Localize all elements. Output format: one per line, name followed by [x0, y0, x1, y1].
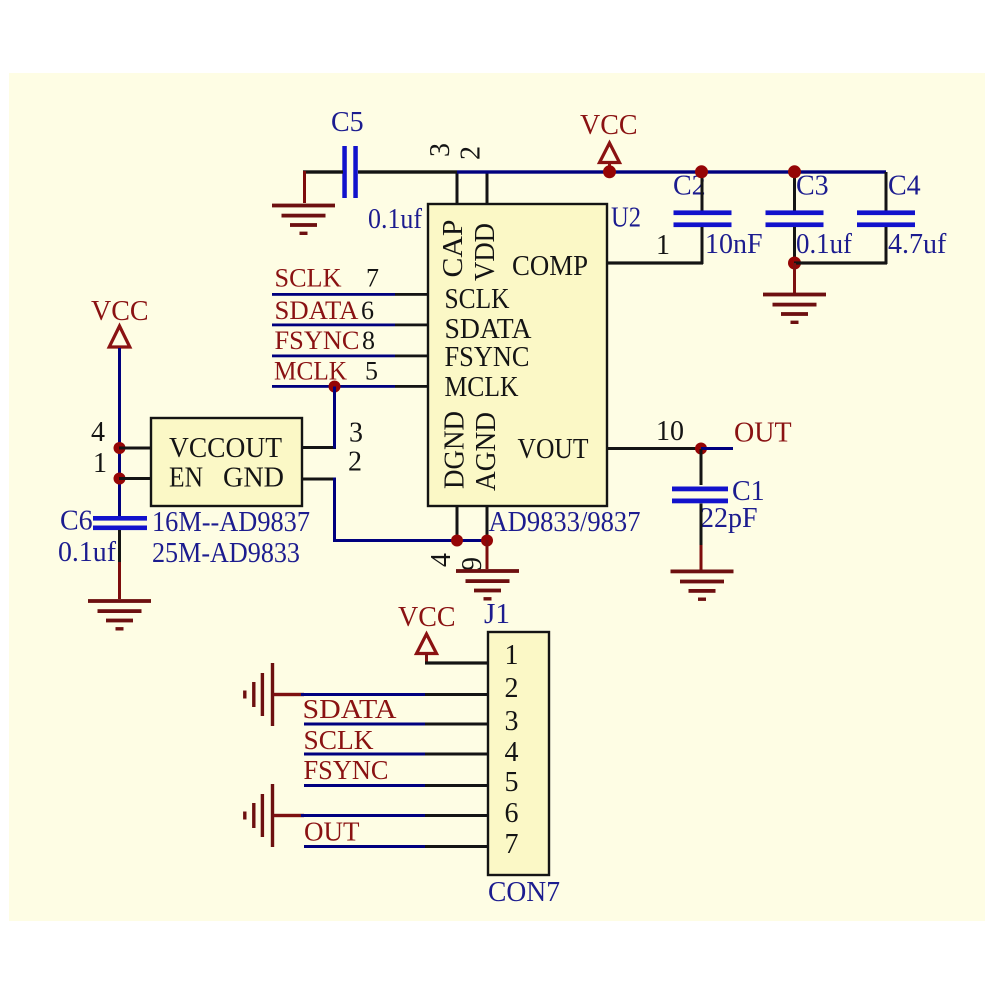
- capacitor C2 plates: [674, 210, 732, 227]
- svg-text:FSYNC: FSYNC: [445, 342, 530, 373]
- net label FSYNC bottom: [304, 755, 389, 785]
- capacitor C5 label: [331, 107, 364, 138]
- svg-text:8: 8: [362, 326, 375, 355]
- capacitor C3 label: [796, 171, 829, 202]
- capacitor C6 label: [60, 506, 93, 537]
- capacitor C1 top stub: [700, 449, 703, 485]
- svg-text:AD9833/9837: AD9833/9837: [489, 507, 641, 538]
- wire J1 pin7: [304, 845, 488, 848]
- svg-text:DGND: DGND: [440, 411, 471, 489]
- wire DGND stub: [456, 506, 459, 541]
- svg-text:OUT: OUT: [734, 418, 792, 449]
- wire pin1 stub: [119, 477, 152, 480]
- wire VCCOUT pin3 to MCLK: [333, 387, 336, 449]
- svg-text:VCC: VCC: [91, 296, 149, 327]
- svg-text:4: 4: [426, 553, 457, 567]
- junction dot AGND: [481, 535, 493, 547]
- svg-text:MCLK: MCLK: [445, 372, 519, 403]
- IC U2 pin name VDD rotated: [470, 223, 501, 281]
- wire C5 ground stub: [303, 171, 306, 203]
- IC VCCOUT GND pin text: [223, 463, 284, 494]
- svg-text:C6: C6: [60, 506, 93, 537]
- connector J1 body CON7: [488, 632, 549, 875]
- svg-text:5: 5: [365, 357, 378, 386]
- IC U2 pin name COMP: [512, 251, 588, 282]
- sideways ground at J1 pin2: [243, 663, 304, 726]
- IC U2 pin name FSYNC: [445, 342, 530, 373]
- net label OUT right: [734, 418, 792, 449]
- ground below C1: [671, 570, 734, 601]
- power VCC J1 triangle: [417, 634, 437, 654]
- wire J1 pin5: [304, 784, 488, 787]
- wire VCCOUT pin3 stub: [302, 446, 336, 449]
- wire top VCC rail: [457, 170, 886, 173]
- svg-text:1: 1: [93, 448, 107, 479]
- capacitor C6 value 0.1uf: [58, 537, 117, 568]
- IC U2 pin name AGND rotated: [471, 412, 502, 491]
- net label SCLK bottom: [304, 725, 374, 755]
- note 25M-AD9833: [152, 538, 300, 569]
- svg-text:SCLK: SCLK: [445, 284, 510, 315]
- capacitor C4 plates: [857, 210, 915, 227]
- IC U2 pin name SDATA: [445, 314, 533, 345]
- wire C1 bottom black: [700, 504, 703, 546]
- capacitor C2 label: [673, 171, 706, 202]
- wire C1 ground stub: [700, 545, 703, 570]
- svg-text:6: 6: [361, 296, 374, 325]
- svg-text:1: 1: [505, 640, 519, 671]
- wire VCC left vertical: [118, 348, 121, 516]
- junction dot pin1: [114, 473, 126, 485]
- wire J1 pin2: [301, 693, 488, 696]
- svg-text:3: 3: [425, 143, 456, 157]
- wire OUT tail: [701, 447, 733, 450]
- capacitor C3 value 0.1uf: [796, 229, 853, 260]
- junction dot C3 top: [788, 165, 801, 178]
- capacitor C1 plates: [672, 487, 728, 504]
- svg-text:GND: GND: [223, 463, 284, 494]
- net label SDATA: [275, 296, 359, 325]
- pin number 1 (COMP): [656, 230, 670, 261]
- svg-text:2: 2: [348, 447, 362, 478]
- capacitor C3 top stub: [793, 172, 796, 212]
- power VCC top label: [580, 110, 638, 141]
- svg-text:16M--AD9837: 16M--AD9837: [152, 507, 310, 538]
- pin number 6: [361, 296, 374, 325]
- pin number 4 (VCCOUT left): [91, 417, 105, 448]
- pin number 2 (VDD) rotated: [456, 146, 487, 160]
- connector J1 label CON7: [488, 877, 560, 908]
- connector J1 reference label: [484, 599, 510, 630]
- connector J1 pin number 7: [505, 829, 519, 860]
- pin number 8: [362, 326, 375, 355]
- wire pin3 stub into CAP: [456, 171, 459, 205]
- IC U2 pin name SCLK: [445, 284, 510, 315]
- svg-text:3: 3: [349, 418, 363, 449]
- svg-text:VCC: VCC: [580, 110, 638, 141]
- svg-text:4: 4: [505, 737, 519, 768]
- svg-text:U2: U2: [611, 203, 641, 234]
- connector J1 pin number 3: [505, 706, 519, 737]
- capacitor C2 bottom stub: [701, 227, 704, 264]
- net label MCLK: [274, 357, 347, 386]
- svg-text:SDATA: SDATA: [303, 694, 398, 724]
- wire VCC to J1 pin1: [425, 654, 488, 665]
- power VCC left triangle: [109, 326, 130, 347]
- svg-text:6: 6: [505, 798, 519, 829]
- svg-text:7: 7: [505, 829, 519, 860]
- capacitor C3 bottom stub: [793, 227, 796, 264]
- junction dot pin4: [114, 442, 126, 454]
- wire VCCOUT pin2 down: [333, 478, 336, 542]
- svg-text:7: 7: [366, 264, 379, 293]
- svg-text:0.1uf: 0.1uf: [368, 204, 423, 235]
- pin number 7: [366, 264, 379, 293]
- connector J1 pin number 5: [505, 767, 519, 798]
- wire C3 to C4 bottom: [794, 261, 887, 264]
- wire C3 ground stub: [793, 263, 796, 293]
- svg-text:2: 2: [505, 673, 519, 704]
- wire J1 pin3: [304, 723, 488, 726]
- svg-text:COMP: COMP: [512, 251, 588, 282]
- wire VCCOUT pin2 stub: [302, 478, 336, 481]
- pin number 9 (AGND) rotated: [457, 557, 488, 571]
- capacitor C1 value 22pF: [700, 503, 758, 534]
- net label OUT bottom: [304, 817, 360, 847]
- pin number 5: [365, 357, 378, 386]
- IC U2 body AD9833/9837: [428, 204, 607, 506]
- svg-text:9: 9: [457, 557, 488, 571]
- svg-text:5: 5: [505, 767, 519, 798]
- IC U2 pin name VOUT: [518, 434, 589, 465]
- svg-text:VDD: VDD: [470, 223, 501, 281]
- svg-text:C4: C4: [888, 171, 921, 202]
- IC type label AD9833/9837: [489, 507, 641, 538]
- svg-text:CAP: CAP: [438, 220, 469, 278]
- svg-text:0.1uf: 0.1uf: [796, 229, 853, 260]
- junction dot DGND: [451, 535, 463, 547]
- svg-text:J1: J1: [484, 599, 510, 630]
- wire VOUT pin10: [607, 447, 703, 450]
- IC VCCOUT oscillator body: [151, 418, 302, 506]
- svg-text:VOUT: VOUT: [518, 434, 589, 465]
- svg-text:10nF: 10nF: [705, 229, 763, 260]
- svg-text:EN: EN: [169, 463, 203, 494]
- wire C5 right to pin3: [358, 170, 457, 173]
- wire SDATA: [272, 324, 428, 327]
- net label SDATA bottom: [303, 694, 398, 724]
- pin number 3 (CAP) rotated: [425, 143, 456, 157]
- connector J1 pin number 6: [505, 798, 519, 829]
- capacitor C3 plates: [766, 210, 824, 227]
- svg-text:AGND: AGND: [471, 412, 502, 491]
- ground below C3: [763, 293, 826, 324]
- svg-text:1: 1: [656, 230, 670, 261]
- svg-text:SCLK: SCLK: [304, 725, 374, 755]
- capacitor C4 label: [888, 171, 921, 202]
- wire AGND ground stub: [486, 540, 489, 569]
- svg-text:VCC: VCC: [398, 602, 456, 633]
- IC VCCOUT name text: [169, 433, 282, 464]
- junction dot VOUT: [695, 443, 707, 455]
- net label SCLK: [275, 264, 342, 293]
- svg-text:0.1uf: 0.1uf: [58, 537, 117, 568]
- svg-text:C5: C5: [331, 107, 364, 138]
- svg-text:2: 2: [456, 146, 487, 160]
- ground below C5: [272, 204, 335, 235]
- svg-text:FSYNC: FSYNC: [275, 326, 360, 355]
- svg-text:10: 10: [656, 416, 684, 447]
- pin number 3 (VCCOUT out): [349, 418, 363, 449]
- junction dot C2 top: [695, 165, 708, 178]
- wire FSYNC: [272, 355, 428, 358]
- wire pin4 stub: [119, 447, 152, 450]
- capacitor C2 value 10nF: [705, 229, 763, 260]
- svg-text:22pF: 22pF: [700, 503, 758, 534]
- IC U2 pin name MCLK: [445, 372, 519, 403]
- capacitor C6 plates: [93, 516, 147, 530]
- junction dot MCLK: [329, 381, 341, 393]
- wire C6 bottom black: [118, 530, 121, 562]
- capacitor C4 value 4.7uf: [888, 229, 947, 260]
- capacitor C5 plates: [342, 146, 358, 198]
- power VCC J1 label: [398, 602, 456, 633]
- svg-text:25M-AD9833: 25M-AD9833: [152, 538, 300, 569]
- wire J1 pin6: [301, 814, 488, 817]
- ground below C6: [88, 599, 151, 630]
- connector J1 pin number 2: [505, 673, 519, 704]
- wire pin2 stub into VDD: [486, 171, 489, 205]
- svg-text:OUT: OUT: [304, 817, 360, 847]
- svg-text:3: 3: [505, 706, 519, 737]
- svg-text:FSYNC: FSYNC: [304, 755, 389, 785]
- junction dot VCC rail: [603, 165, 616, 178]
- net label FSYNC: [275, 326, 360, 355]
- svg-text:C3: C3: [796, 171, 829, 202]
- pin number 2 (VCCOUT gnd): [348, 447, 362, 478]
- svg-text:4.7uf: 4.7uf: [888, 229, 947, 260]
- wire C6 ground stub: [118, 562, 121, 599]
- note 16M--AD9837: [152, 507, 310, 538]
- svg-text:4: 4: [91, 417, 105, 448]
- pin number 4 (DGND) rotated: [426, 553, 457, 567]
- pin number 10 (VOUT): [656, 416, 684, 447]
- capacitor C2 top stub: [701, 172, 704, 212]
- capacitor C4 bottom stub: [885, 227, 888, 264]
- power VCC top triangle: [600, 143, 620, 169]
- wire MCLK: [272, 385, 428, 388]
- wire J1 pin4: [304, 753, 488, 756]
- wire C5 left: [303, 170, 343, 173]
- capacitor C5 value 0.1uf: [368, 204, 423, 235]
- power VCC left label: [91, 296, 149, 327]
- sideways ground at J1 pin6: [243, 784, 304, 847]
- IC VCCOUT EN pin text: [169, 463, 203, 494]
- IC U2 pin name DGND rotated: [440, 411, 471, 489]
- junction dot C3 bottom: [788, 257, 801, 270]
- connector J1 pin number 1: [505, 640, 519, 671]
- wire COMP pin1 to C2: [607, 261, 703, 264]
- capacitor C4 top stub: [885, 172, 888, 212]
- svg-text:CON7: CON7: [488, 877, 560, 908]
- pin number 1 (EN): [93, 448, 107, 479]
- svg-text:VCCOUT: VCCOUT: [169, 433, 282, 464]
- connector J1 pin number 4: [505, 737, 519, 768]
- wire SCLK: [272, 293, 428, 296]
- svg-text:SDATA: SDATA: [275, 296, 359, 325]
- IC U2 pin name CAP rotated: [438, 220, 469, 278]
- IC U2 reference label: [611, 203, 641, 234]
- svg-text:SDATA: SDATA: [445, 314, 533, 345]
- ground below AGND: [456, 569, 519, 600]
- capacitor C1 label: [732, 476, 765, 507]
- svg-text:SCLK: SCLK: [275, 264, 342, 293]
- wire AGND stub: [486, 506, 489, 541]
- wire pin2 to DGND/AGND: [333, 539, 488, 542]
